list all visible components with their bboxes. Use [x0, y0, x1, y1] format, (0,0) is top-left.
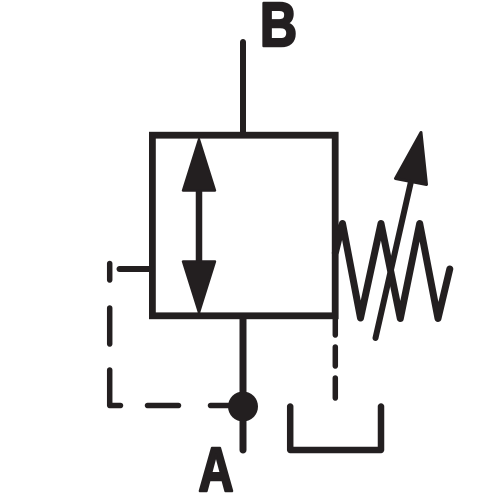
adjustment arrow shaft: [376, 182, 412, 339]
flow arrowhead down: [183, 262, 215, 313]
tank symbol: [290, 407, 381, 451]
wire B port line: [240, 42, 246, 135]
pilot stub wire: [120, 266, 153, 272]
dashed pilot line vertical: [110, 264, 121, 406]
flow arrow (double-headed) shaft: [196, 186, 203, 264]
spring: [335, 224, 450, 319]
valve body envelope: [152, 135, 335, 316]
svg-text:A: A: [199, 436, 234, 500]
dashed drain line: [333, 318, 339, 398]
dashed pilot line horizontal: [148, 403, 230, 409]
adjustment arrowhead: [396, 133, 427, 185]
flow arrowhead up: [183, 140, 215, 191]
wire A port line: [240, 316, 247, 450]
junction node: [228, 392, 258, 422]
svg-text:B: B: [260, 0, 297, 60]
